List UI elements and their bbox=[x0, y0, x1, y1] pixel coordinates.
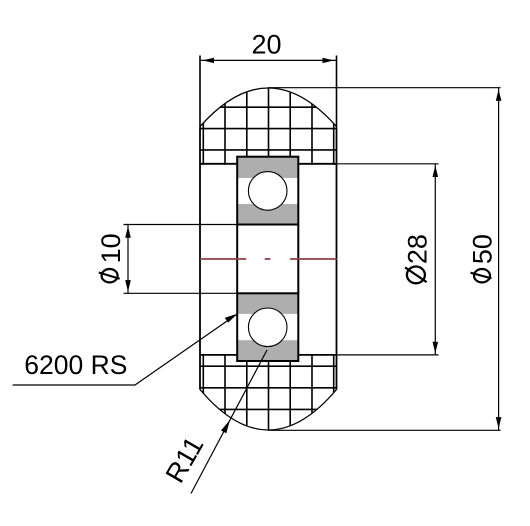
svg-text:50: 50 bbox=[467, 234, 497, 264]
svg-text:6200 RS: 6200 RS bbox=[24, 350, 127, 380]
svg-text:28: 28 bbox=[402, 234, 432, 264]
svg-text:20: 20 bbox=[251, 29, 281, 59]
svg-text:10: 10 bbox=[96, 233, 126, 263]
